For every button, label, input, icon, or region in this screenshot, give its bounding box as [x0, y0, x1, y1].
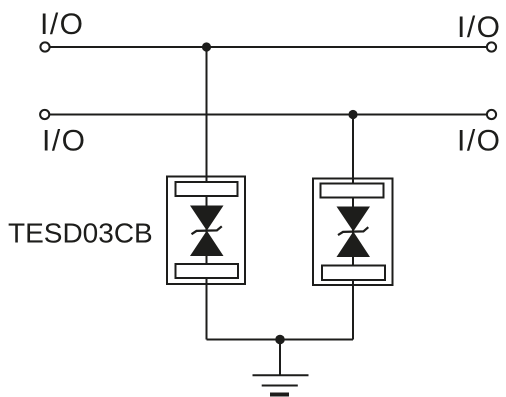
terminal circle lower-left — [40, 110, 49, 119]
TVS diode D1 lower triangle — [190, 231, 224, 256]
TVS diode D2 package outline — [313, 179, 393, 286]
TVS diode D2 zener bar — [338, 227, 368, 235]
TVS diode D2 top pad — [321, 184, 384, 198]
TVS diode D2 bottom pad — [322, 266, 385, 281]
TVS diode D2 lower triangle — [337, 232, 371, 258]
terminal circle top-right — [487, 42, 496, 51]
TVS diode D1 zener bar — [192, 226, 222, 234]
wire: top I/O line — [50, 46, 487, 48]
wire: ground stem — [279, 340, 281, 376]
TVS diode D1 bottom pad — [176, 264, 239, 278]
svg-text:I/O: I/O — [40, 8, 85, 41]
svg-text:I/O: I/O — [42, 125, 87, 158]
junction dot on ground bus — [275, 335, 285, 345]
wire: second I/O line — [50, 114, 487, 116]
wire: vertical drop from second line to diode 2 — [352, 115, 354, 340]
ground symbol bar 3 — [270, 393, 289, 397]
ground symbol bar 2 — [262, 385, 298, 387]
TVS diode D1 upper triangle — [190, 206, 224, 231]
junction dot on top line — [202, 42, 211, 51]
TVS diode D1 package outline — [167, 177, 245, 285]
svg-text:TESD03CB: TESD03CB — [8, 218, 153, 249]
wire: bottom common ground bus — [207, 339, 354, 341]
TVS diode D2 upper triangle — [337, 207, 371, 232]
ground symbol bar 1 — [253, 374, 309, 376]
TVS diode D1 top pad — [176, 182, 238, 196]
wire: vertical drop from top line to diode 1 — [206, 47, 208, 340]
junction dot on second line — [348, 110, 357, 119]
terminal circle lower-right — [487, 110, 496, 119]
svg-text:I/O: I/O — [457, 125, 502, 158]
terminal circle top-left — [40, 42, 49, 51]
svg-text:I/O: I/O — [457, 11, 502, 44]
